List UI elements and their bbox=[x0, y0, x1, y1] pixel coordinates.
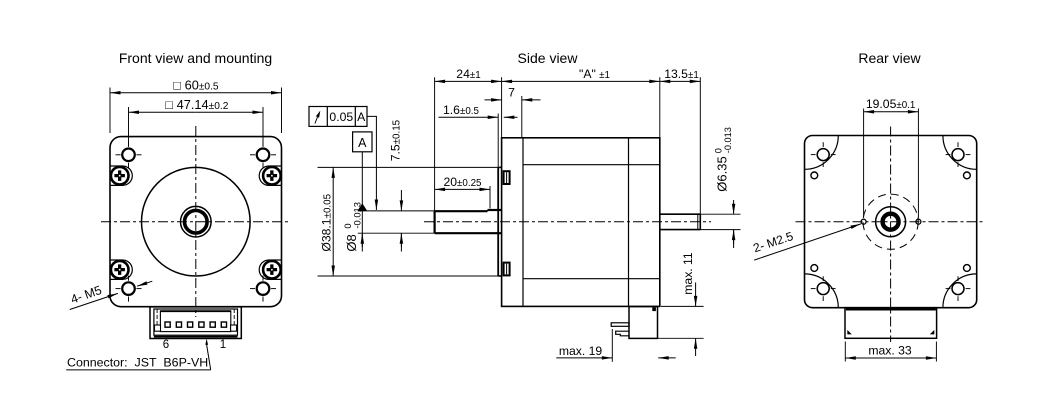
rear centerline horizontal bbox=[796, 221, 986, 223]
dim 1.6 +-0.5 (boss height) bbox=[439, 116, 499, 118]
dia8 label bbox=[342, 202, 362, 252]
mounting holes 4x M5 with tick marks bbox=[122, 149, 135, 162]
fcf leader bbox=[367, 116, 376, 196]
pilot boss side profile bbox=[497, 167, 499, 276]
dim dia 8 tolerance bbox=[361, 233, 363, 247]
shaft top/bottom extension lines bbox=[358, 210, 435, 212]
side view front endbell line bbox=[522, 138, 524, 307]
svg-text:Ø8: Ø8 bbox=[344, 234, 359, 251]
svg-text:Ø6.35: Ø6.35 bbox=[714, 156, 729, 191]
svg-text:Front view and mounting: Front view and mounting bbox=[119, 50, 272, 66]
dim dia 6.35 rear shaft bbox=[700, 213, 740, 215]
screw heads on front face bbox=[504, 171, 510, 184]
svg-text:6: 6 bbox=[163, 339, 169, 351]
connector leader line bbox=[207, 345, 211, 370]
dim square 60 +-0.5 bbox=[110, 92, 196, 94]
dim square 47.14 +-0.2 bbox=[129, 111, 196, 113]
dim max 19 bbox=[611, 329, 613, 362]
feature control frame (runout 0.05 A) bbox=[309, 107, 367, 127]
connector wall dashes bbox=[156, 309, 158, 325]
ext lines top chain bbox=[434, 77, 436, 211]
svg-text:19.05±0.1: 19.05±0.1 bbox=[866, 97, 916, 111]
dim max 11 bbox=[661, 305, 704, 307]
connector front inner housing bbox=[154, 309, 238, 335]
datum A box bbox=[353, 132, 372, 152]
rear shaft bbox=[660, 213, 701, 215]
dim square 47.14 +-0.2 extension lines bbox=[128, 107, 130, 146]
dim A +-1 bbox=[502, 80, 580, 82]
svg-text:1: 1 bbox=[220, 339, 226, 351]
side view rear endbell line bbox=[628, 138, 630, 307]
pilot boss circle dia 38.1 bbox=[142, 167, 251, 276]
front view centerline horizontal bbox=[101, 221, 291, 223]
side view centerline bbox=[424, 221, 711, 223]
dim 7.5 +-0.15 bbox=[400, 190, 402, 211]
corner screws 4x phillips bbox=[111, 167, 129, 185]
svg-text:Ø38.1±0.05: Ø38.1±0.05 bbox=[320, 193, 334, 251]
svg-text:Rear view: Rear view bbox=[858, 50, 921, 66]
rear centerline vertical bbox=[890, 127, 892, 343]
dim 20 +-0.25 (flat length) bbox=[489, 186, 491, 209]
svg-text:A: A bbox=[358, 136, 367, 150]
rear through-screw holes small bbox=[811, 172, 818, 179]
side connector profile bbox=[629, 307, 658, 339]
svg-text:7.5±0.15: 7.5±0.15 bbox=[389, 119, 403, 161]
svg-text:20±0.25: 20±0.25 bbox=[443, 175, 482, 189]
dim dia 38.1 extension lines bbox=[318, 166, 499, 168]
dim 19.05 +-0.1 bbox=[864, 111, 891, 113]
svg-text:"A" ±1: "A" ±1 bbox=[579, 67, 610, 81]
side view body outline bbox=[502, 138, 660, 307]
dim square 60 +-0.5 extension lines bbox=[109, 88, 111, 134]
dim max 33 bbox=[844, 342, 846, 362]
svg-text:1.6±0.5: 1.6±0.5 bbox=[443, 103, 480, 117]
rear bolt circle dashed bbox=[863, 194, 918, 249]
svg-text:13.5±1: 13.5±1 bbox=[664, 67, 699, 81]
shaft circle dia 8 (thick) bbox=[185, 210, 208, 233]
boss face extension line up to 1.6 dim bbox=[497, 114, 499, 168]
svg-text:Connector: JST B6P-VH: Connector: JST B6P-VH bbox=[67, 355, 208, 369]
rear center hub circle bbox=[876, 207, 906, 237]
svg-text:0.05: 0.05 bbox=[329, 110, 353, 124]
dim 13.5 +-1 bbox=[660, 80, 680, 82]
dim 19.05 extension lines bbox=[863, 109, 865, 219]
shaft with flat (side view) bbox=[434, 211, 436, 233]
svg-text:24±1: 24±1 bbox=[456, 67, 480, 81]
dim dia 38.1 bbox=[332, 167, 334, 222]
connector front outline bbox=[150, 307, 241, 339]
svg-text:max. 33: max. 33 bbox=[868, 344, 912, 358]
rear connector outline bbox=[845, 308, 937, 339]
svg-text:Side view: Side view bbox=[518, 50, 579, 66]
rear shaft end (thick ring) bbox=[883, 214, 899, 230]
dim 24 +-1 bbox=[435, 80, 468, 82]
svg-text:-0.013: -0.013 bbox=[723, 127, 733, 153]
front view centerline vertical bbox=[195, 126, 197, 317]
connector pins 6x bbox=[165, 322, 170, 327]
label 4-M5 with leader bbox=[70, 293, 118, 309]
svg-text:max. 19: max. 19 bbox=[559, 344, 603, 358]
svg-text:7: 7 bbox=[508, 86, 515, 100]
shaft hub outer circle bbox=[181, 206, 212, 237]
dim 7 (endbell) bbox=[521, 96, 523, 138]
rear corner pockets bbox=[805, 136, 839, 170]
M2.5 holes 2x bbox=[861, 219, 866, 224]
rear corner holes bbox=[817, 149, 829, 161]
svg-text:A: A bbox=[357, 110, 366, 124]
label 2-M2.5 with leader bbox=[754, 224, 861, 260]
svg-text:max. 11: max. 11 bbox=[681, 252, 695, 295]
front view screw pockets bbox=[110, 166, 132, 185]
connector polarity notches bbox=[155, 325, 161, 331]
runout symbol bbox=[315, 117, 318, 124]
connector bottom band bbox=[154, 336, 238, 338]
datum leader + triangle bbox=[361, 152, 363, 205]
connector front cavity bbox=[160, 311, 230, 332]
rear view body outline bbox=[805, 136, 977, 308]
front view motor body outline bbox=[110, 137, 282, 307]
side view corner tangent lines bbox=[523, 164, 660, 166]
